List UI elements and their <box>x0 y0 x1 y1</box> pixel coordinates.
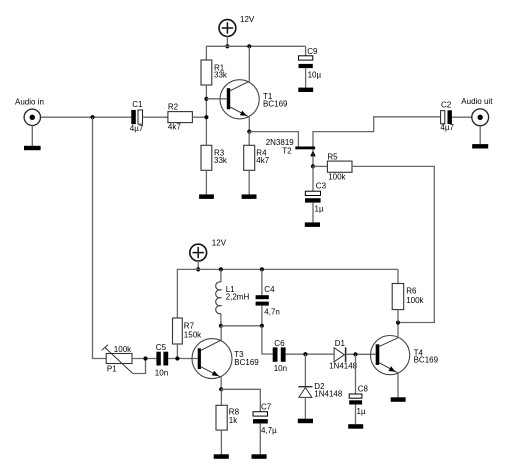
node 12V bottom rail junction <box>196 267 200 271</box>
diode D2 <box>298 354 312 419</box>
node T1 base junction <box>204 97 208 101</box>
svg-text:C5: C5 <box>156 343 167 352</box>
ground R8 <box>214 454 229 459</box>
wire T4 collector <box>397 323 399 338</box>
capacitor C4 <box>256 269 269 325</box>
wire C2 to output jack <box>452 116 472 118</box>
svg-text:150k: 150k <box>184 331 202 340</box>
power 12V symbol bottom <box>190 244 207 261</box>
svg-text:33k: 33k <box>214 156 228 165</box>
svg-text:C8: C8 <box>358 384 369 393</box>
capacitor C7 <box>221 389 268 454</box>
node 12V rail junction <box>225 44 229 48</box>
node T1 emitter junction <box>247 130 251 134</box>
capacitor C9 <box>299 46 313 87</box>
node R7 base junction <box>175 356 179 360</box>
wire input junction down to P1 <box>93 117 107 358</box>
svg-text:100k: 100k <box>114 345 132 354</box>
svg-text:1µ: 1µ <box>315 204 324 213</box>
wire C6 to D1 <box>286 353 335 355</box>
wire P1 to C5 <box>132 358 156 360</box>
wire D1 to T4 base <box>346 353 375 355</box>
ground C7 <box>252 454 267 459</box>
node T4 collector junction <box>396 320 400 324</box>
transistor T2 2N3819 <box>295 147 316 167</box>
power 12V symbol top <box>219 20 236 37</box>
resistor R2 <box>168 112 193 123</box>
connector output jack <box>472 109 489 126</box>
svg-text:4,7n: 4,7n <box>264 308 280 317</box>
wire output jack to ground <box>479 126 481 144</box>
wire T1 emitter <box>248 117 250 132</box>
wire supply rail bottom <box>177 268 398 270</box>
node C8 junction <box>353 352 357 356</box>
svg-text:100k: 100k <box>406 296 424 305</box>
node C4 bottom junction <box>260 324 264 328</box>
svg-text:Audio uit: Audio uit <box>461 97 493 106</box>
resistor R5 <box>327 161 352 172</box>
svg-text:C4: C4 <box>264 285 275 294</box>
svg-text:Audio in: Audio in <box>15 98 44 107</box>
svg-text:C6: C6 <box>274 339 285 348</box>
capacitor C3 <box>305 166 321 222</box>
svg-text:4µ7: 4µ7 <box>440 123 454 132</box>
svg-text:R6: R6 <box>406 286 417 295</box>
wire R7 to base junction <box>176 344 178 359</box>
wire L1 junction to C4 junction <box>221 325 262 327</box>
svg-text:12V: 12V <box>240 15 255 24</box>
svg-text:P1: P1 <box>107 364 117 373</box>
svg-text:T2: T2 <box>282 147 292 156</box>
svg-text:R7: R7 <box>184 322 195 331</box>
resistor R1 <box>201 60 212 85</box>
wire C1 to R2 <box>143 116 168 118</box>
svg-text:4µ7: 4µ7 <box>130 124 144 133</box>
svg-text:C2: C2 <box>441 100 452 109</box>
transistor T4 <box>371 336 410 375</box>
svg-text:C3: C3 <box>316 181 327 190</box>
svg-text:C7: C7 <box>261 402 272 411</box>
ground input jack <box>24 146 41 150</box>
wire R3 to ground <box>205 170 207 194</box>
ground C8 <box>348 424 363 429</box>
capacitor C1 <box>131 110 142 124</box>
inductor L1 <box>216 269 221 325</box>
svg-text:4k7: 4k7 <box>256 156 269 165</box>
svg-text:2,2mH: 2,2mH <box>226 293 250 302</box>
resistor R8 <box>216 389 227 454</box>
wire T1 emitter to T2 drain <box>249 132 298 147</box>
node T3 emitter junction <box>219 387 223 391</box>
resistor R6 <box>392 269 404 322</box>
wire input jack to ground <box>31 126 33 146</box>
diode D1 <box>334 347 346 362</box>
capacitor C6 <box>273 347 286 361</box>
wire C4 junction down to C6 <box>262 326 273 354</box>
svg-text:BC169: BC169 <box>414 356 439 365</box>
svg-text:1N4148: 1N4148 <box>314 390 343 399</box>
svg-text:33k: 33k <box>214 71 228 80</box>
connector input jack <box>24 109 40 125</box>
svg-text:100k: 100k <box>328 172 346 181</box>
node R2 junction <box>204 115 208 119</box>
transistor T3 <box>192 339 232 379</box>
wire R5 to T4 collector feedback <box>352 166 434 322</box>
node L1 bottom junction <box>219 324 223 328</box>
node T2 gate junction <box>311 164 315 168</box>
capacitor C5 <box>156 352 168 366</box>
wire rail to R1 <box>205 46 207 60</box>
ground C9 <box>298 88 313 92</box>
svg-text:10n: 10n <box>155 368 168 377</box>
svg-text:C9: C9 <box>307 47 318 56</box>
svg-text:10n: 10n <box>274 364 287 373</box>
svg-text:1k: 1k <box>229 416 238 425</box>
wire 12V bottom to rail <box>197 261 199 270</box>
svg-text:R2: R2 <box>168 103 179 112</box>
wire T2 source to output <box>313 117 441 147</box>
wire R1 to R3 <box>205 85 207 145</box>
wire T4 emitter <box>397 373 399 398</box>
wire T3 emitter <box>220 377 222 389</box>
wire C5 to T3 base <box>168 358 198 360</box>
resistor R4 <box>244 132 255 195</box>
wire 12V to rail <box>226 36 228 46</box>
node L1 rail junction <box>219 267 223 271</box>
svg-text:R5: R5 <box>327 152 338 161</box>
wire supply rail top <box>206 45 305 47</box>
svg-text:4,7µ: 4,7µ <box>261 426 277 435</box>
node input junction <box>90 115 94 119</box>
wire R2 to base node <box>192 116 206 118</box>
node D2 junction <box>303 352 307 356</box>
transistor T1 <box>220 80 259 119</box>
capacitor C8 <box>349 354 362 424</box>
svg-text:BC169: BC169 <box>263 99 288 108</box>
svg-text:1µ: 1µ <box>357 407 366 416</box>
resistor R3 <box>201 145 212 170</box>
wire gate junction to R5 <box>313 165 327 167</box>
node T1 collector rail junction <box>247 44 251 48</box>
wire rail to R7 <box>176 269 178 318</box>
node P1 wiper junction <box>143 356 147 360</box>
svg-text:C1: C1 <box>132 100 143 109</box>
ground D2 <box>298 419 313 424</box>
svg-text:4k7: 4k7 <box>168 122 181 131</box>
wire T1 collector <box>248 46 250 81</box>
svg-text:12V: 12V <box>212 238 227 247</box>
potentiometer P1 <box>102 345 146 374</box>
ground T4 <box>391 397 406 402</box>
svg-text:BC169: BC169 <box>234 358 259 367</box>
ground C3 <box>305 222 320 227</box>
wire base junction to T1 <box>206 98 226 100</box>
capacitor C2 <box>441 110 452 124</box>
svg-text:10µ: 10µ <box>308 71 322 80</box>
svg-text:D1: D1 <box>335 339 346 348</box>
wire input jack to C1 <box>41 116 132 118</box>
svg-text:1N4148: 1N4148 <box>329 361 358 370</box>
node C4 rail junction <box>260 267 264 271</box>
ground output jack <box>472 144 488 148</box>
resistor R7 <box>173 318 183 344</box>
wire T3 collector <box>220 326 222 340</box>
ground R3 <box>199 194 214 199</box>
ground R4 <box>242 194 257 199</box>
